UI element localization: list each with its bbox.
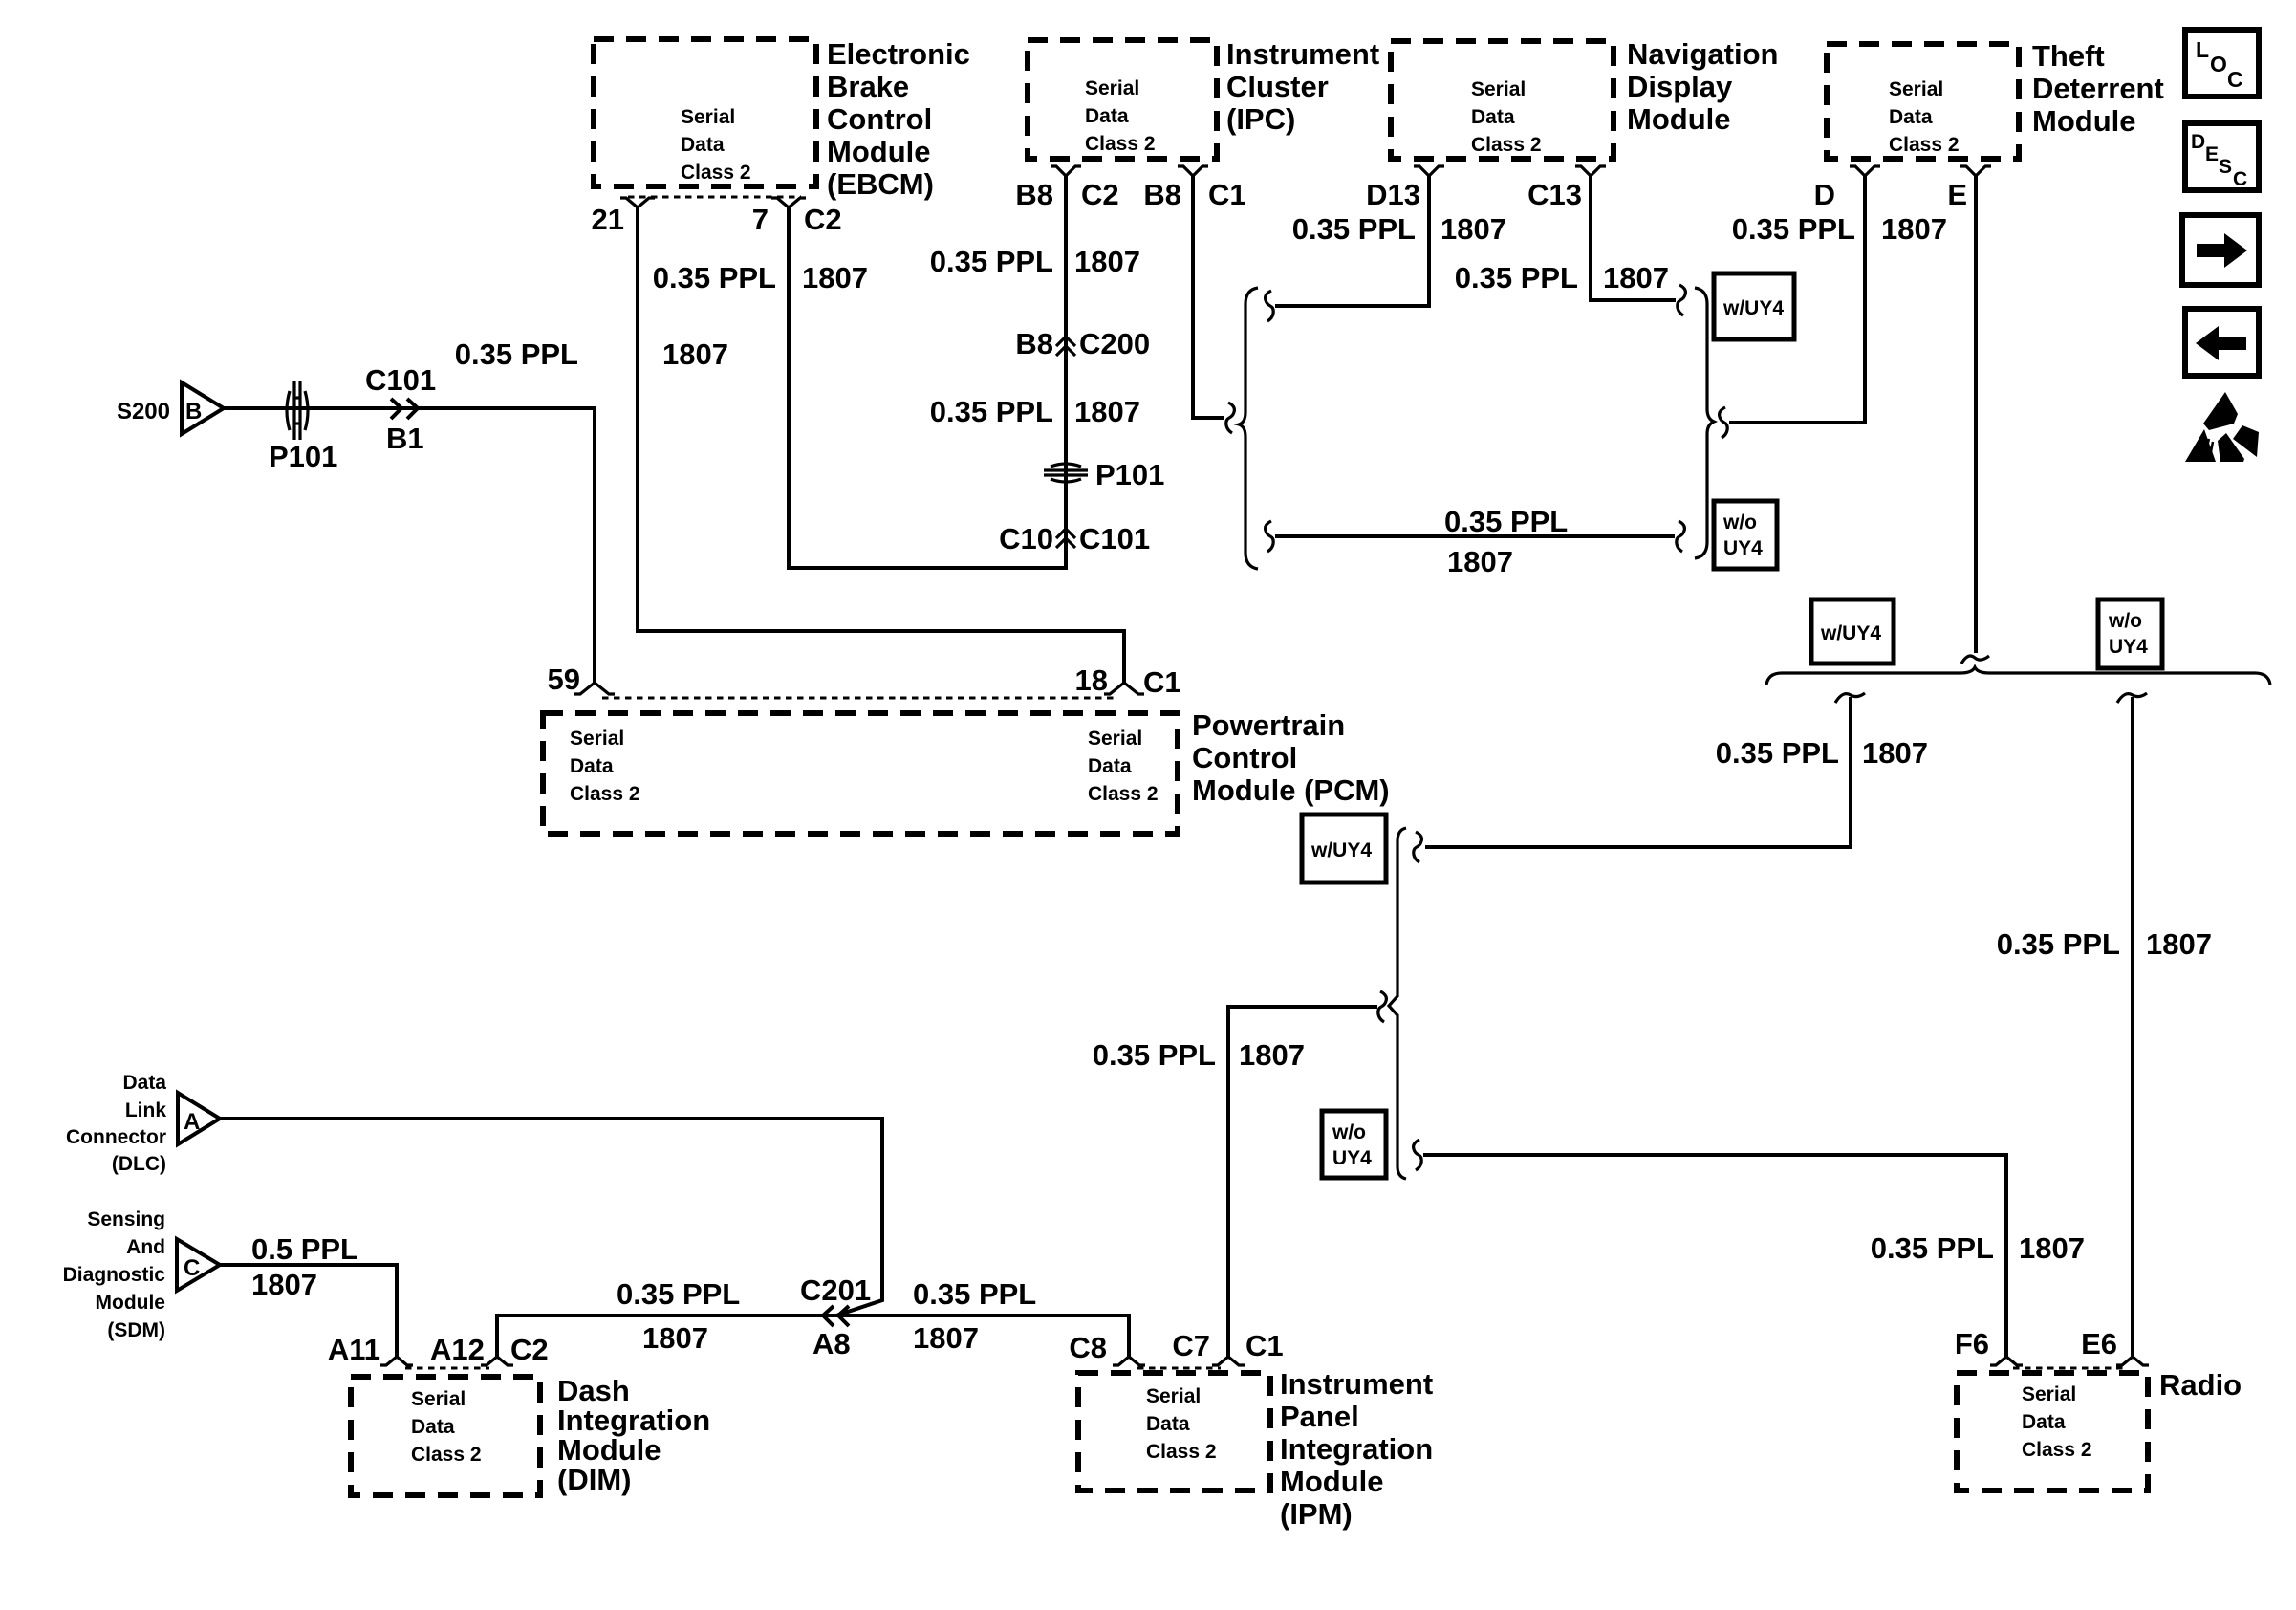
module box Theft Deterrent dashed — [1827, 44, 2019, 159]
svg-text:Data: Data — [122, 1072, 166, 1094]
svg-text:L: L — [2196, 37, 2209, 62]
wire Theft Deterrent pin E down to big brace — [1974, 176, 1978, 653]
icon box arrow right — [2182, 215, 2259, 285]
svg-text:Serial: Serial — [411, 1388, 466, 1410]
svg-text:0.35 PPL: 0.35 PPL — [455, 337, 578, 371]
title Powertrain Control Module PCM — [1192, 708, 1390, 807]
svg-text:C10: C10 — [999, 522, 1053, 555]
svg-text:Data: Data — [570, 755, 614, 777]
svg-text:(DIM): (DIM) — [557, 1463, 631, 1496]
svg-text:C8: C8 — [1069, 1331, 1107, 1364]
wire junction to Navigation pin D13 — [1275, 176, 1429, 306]
connector face dashed line PCM — [602, 697, 1116, 700]
option box w/UY4 at PCM junction — [1302, 815, 1386, 882]
svg-text:C: C — [2233, 168, 2247, 190]
svg-text:C101: C101 — [365, 363, 436, 397]
text w/o UY4 above big brace — [2108, 610, 2148, 658]
svg-text:Instrument: Instrument — [1226, 37, 1379, 71]
brace big horizontal — [1766, 667, 2270, 685]
svg-text:1807: 1807 — [1862, 736, 1928, 770]
svg-text:E: E — [2205, 143, 2219, 165]
text w/o UY4 at navigation junction — [1722, 511, 1763, 559]
svg-text:Serial: Serial — [2022, 1383, 2076, 1405]
svg-text:B8: B8 — [1015, 327, 1053, 360]
svg-text:A12: A12 — [430, 1333, 485, 1366]
svg-text:D13: D13 — [1366, 178, 1420, 211]
svg-text:B8: B8 — [1015, 178, 1053, 211]
svg-text:0.35 PPL: 0.35 PPL — [617, 1277, 740, 1311]
svg-text:Class 2: Class 2 — [1471, 134, 1542, 156]
svg-text:w/UY4: w/UY4 — [1310, 839, 1372, 861]
text data link connector DLC — [66, 1072, 166, 1175]
svg-text:Brake: Brake — [827, 70, 909, 103]
svg-text:Data: Data — [1471, 106, 1515, 128]
wire SDM C to DIM pin A11 — [220, 1265, 397, 1357]
svg-text:1807: 1807 — [1074, 395, 1140, 428]
svg-text:1807: 1807 — [1881, 212, 1947, 246]
wire big brace down to PCM w/UY4 junction — [1425, 697, 1851, 847]
Y connector pin E6 (Radio) — [2116, 1357, 2149, 1365]
Y connector pin D13 (Navigation) — [1414, 166, 1444, 176]
svg-text:w/o: w/o — [1332, 1121, 1366, 1143]
hook drop right under big brace — [2117, 693, 2147, 703]
svg-text:0.35 PPL: 0.35 PPL — [653, 261, 776, 294]
svg-text:0.35 PPL: 0.35 PPL — [1997, 927, 2120, 961]
svg-text:C: C — [2227, 67, 2243, 92]
title Dash Integration Module DIM — [557, 1374, 710, 1496]
text serial data class 2 Theft — [1889, 78, 1960, 156]
Y connector pin F6 (Radio) — [1990, 1357, 2023, 1365]
Y connector pin 7 (EBCM) — [771, 198, 806, 207]
connector face dashed line DIM — [405, 1367, 489, 1370]
svg-text:C201: C201 — [800, 1273, 871, 1307]
svg-text:A11: A11 — [328, 1333, 380, 1366]
svg-text:Link: Link — [125, 1099, 166, 1121]
title Theft Deterrent Module — [2032, 39, 2164, 138]
wire big brace down to Radio pin E6 — [2131, 697, 2134, 1357]
svg-text:Module: Module — [1280, 1465, 1384, 1498]
svg-text:Class 2: Class 2 — [411, 1444, 482, 1466]
Y connector pin C13 (Navigation) — [1575, 166, 1606, 176]
svg-text:Module: Module — [557, 1433, 661, 1467]
svg-text:UY4: UY4 — [2109, 636, 2148, 658]
svg-text:0.35 PPL: 0.35 PPL — [1444, 505, 1568, 538]
connector face dashed line IPM — [1137, 1367, 1221, 1370]
svg-text:E6: E6 — [2081, 1327, 2117, 1360]
Y connector pin C8 (IPM) — [1113, 1357, 1145, 1365]
Y connector pin A12 C2 (DIM) — [481, 1357, 513, 1365]
Y connector pin B8 C1 (IPC) — [1178, 166, 1208, 176]
svg-text:Integration: Integration — [1280, 1432, 1433, 1466]
svg-text:18: 18 — [1075, 664, 1108, 697]
icon box arrow left — [2185, 309, 2259, 376]
text serial data class 2 IPM — [1146, 1385, 1217, 1463]
svg-text:B8: B8 — [1143, 178, 1181, 211]
title Instrument Cluster IPC — [1226, 37, 1379, 136]
wire EBCM pin 21 to PCM pin 18 — [638, 207, 1124, 683]
svg-text:F6: F6 — [1955, 1327, 1989, 1360]
svg-text:Panel: Panel — [1280, 1400, 1359, 1433]
svg-text:Cluster: Cluster — [1226, 70, 1329, 103]
svg-text:Data: Data — [1146, 1413, 1190, 1435]
svg-text:C7: C7 — [1172, 1329, 1210, 1362]
svg-text:1807: 1807 — [2146, 927, 2212, 961]
svg-text:Serial: Serial — [1889, 78, 1943, 100]
svg-text:Serial: Serial — [1146, 1385, 1201, 1407]
module box PCM dashed — [543, 713, 1178, 834]
svg-text:C1: C1 — [1208, 178, 1246, 211]
svg-text:UY4: UY4 — [1723, 537, 1763, 559]
svg-text:Instrument: Instrument — [1280, 1367, 1433, 1401]
svg-text:Data: Data — [1085, 105, 1129, 127]
svg-text:1807: 1807 — [802, 261, 868, 294]
svg-text:0.35 PPL: 0.35 PPL — [1292, 212, 1416, 246]
svg-text:Data: Data — [2022, 1411, 2066, 1433]
brace wire end w/o UY4 branch right — [1677, 521, 1685, 552]
svg-text:0.35 PPL: 0.35 PPL — [1093, 1038, 1216, 1072]
text serial data class 2 EBCM — [681, 106, 751, 184]
brace trunk giant with middle point — [1389, 828, 1406, 1179]
svg-text:Serial: Serial — [1471, 78, 1526, 100]
connector P101 inline symbol vertical — [287, 381, 308, 440]
svg-text:(EBCM): (EBCM) — [827, 167, 934, 201]
svg-text:Serial: Serial — [570, 728, 624, 750]
wire Navigation pin C13 to junction — [1591, 176, 1676, 300]
brace attach D13 branch — [1266, 291, 1274, 321]
svg-text:1807: 1807 — [2019, 1231, 2085, 1265]
brace big left junction — [1239, 288, 1258, 569]
svg-text:0.35 PPL: 0.35 PPL — [1716, 736, 1839, 770]
svg-text:1807: 1807 — [1447, 545, 1513, 578]
svg-text:C13: C13 — [1527, 178, 1582, 211]
svg-text:Module: Module — [1627, 102, 1731, 136]
brace attach w/o UY4 lower branch — [1414, 1140, 1422, 1170]
icon box LOC — [2185, 30, 2259, 97]
module box DIM dashed — [351, 1377, 540, 1495]
connector P101 inline symbol horizontal — [1044, 464, 1088, 482]
text serial data class 2 IPC — [1085, 77, 1156, 155]
svg-text:Serial: Serial — [1085, 77, 1139, 99]
svg-text:Radio: Radio — [2159, 1368, 2242, 1402]
svg-text:Class 2: Class 2 — [681, 162, 751, 184]
wire EBCM pin 7 C2 to IPC pin B8 C2 — [789, 176, 1066, 568]
svg-text:w/UY4: w/UY4 — [1722, 297, 1784, 319]
svg-text:Data: Data — [1088, 755, 1132, 777]
brace wire end at C13 junction — [1678, 285, 1686, 315]
svg-text:Serial: Serial — [681, 106, 735, 128]
svg-text:0.35 PPL: 0.35 PPL — [1455, 261, 1578, 294]
svg-text:1807: 1807 — [662, 337, 728, 371]
svg-text:P101: P101 — [269, 440, 337, 473]
svg-text:Powertrain: Powertrain — [1192, 708, 1345, 742]
svg-text:D: D — [2191, 131, 2205, 153]
svg-text:1807: 1807 — [1603, 261, 1669, 294]
text serial data class 2 Radio — [2022, 1383, 2092, 1461]
svg-text:0.5 PPL: 0.5 PPL — [251, 1232, 358, 1266]
squiggle at E wire bottom — [1961, 656, 1989, 664]
brace attach w/o UY4 branch left — [1266, 521, 1274, 552]
svg-text:B: B — [185, 399, 202, 424]
connector face dashed line EBCM — [628, 196, 801, 199]
svg-text:(IPC): (IPC) — [1226, 102, 1295, 136]
svg-text:Data: Data — [411, 1416, 455, 1438]
svg-text:Theft: Theft — [2032, 39, 2105, 73]
option box w/o UY4 at navigation junction — [1714, 501, 1777, 569]
option box w/o UY4 above big brace — [2098, 599, 2162, 668]
brace wire end at trunk middle — [1378, 991, 1387, 1022]
svg-text:Display: Display — [1627, 70, 1733, 103]
svg-text:w/UY4: w/UY4 — [1820, 622, 1881, 644]
svg-text:S200: S200 — [117, 399, 170, 424]
svg-text:1807: 1807 — [1440, 212, 1506, 246]
svg-text:P101: P101 — [1095, 458, 1164, 491]
module box Navigation dashed — [1391, 41, 1614, 159]
svg-text:0.35 PPL: 0.35 PPL — [930, 395, 1053, 428]
brace wire end at IPC C1 junction — [1226, 402, 1235, 433]
connector face dashed line Radio — [2013, 1367, 2124, 1370]
Y connector pin D (Theft Deterrent) — [1850, 166, 1880, 176]
svg-text:A: A — [184, 1109, 200, 1135]
svg-text:S: S — [2219, 156, 2232, 178]
svg-text:(IPM): (IPM) — [1280, 1497, 1353, 1531]
svg-text:0.35 PPL: 0.35 PPL — [1732, 212, 1855, 246]
title Navigation Display Module — [1627, 37, 1778, 136]
svg-text:C101: C101 — [1079, 522, 1150, 555]
icon box DESC — [2185, 123, 2259, 190]
svg-text:(DLC): (DLC) — [112, 1153, 166, 1175]
connector C200 pass-through chevrons pin B8 — [1056, 337, 1075, 356]
svg-text:C2: C2 — [510, 1333, 549, 1366]
svg-text:UY4: UY4 — [1332, 1147, 1372, 1169]
wire junction to w/o UY4 branch (upper) — [1275, 534, 1675, 538]
wire IPM pin C7 up to trunk middle point — [1228, 1007, 1377, 1357]
svg-text:Module (PCM): Module (PCM) — [1192, 773, 1390, 807]
svg-text:E: E — [1947, 178, 1967, 211]
brace attach theft D branch — [1720, 407, 1728, 438]
svg-text:Class 2: Class 2 — [1085, 133, 1156, 155]
svg-text:Sensing: Sensing — [87, 1208, 165, 1230]
svg-text:0.35 PPL: 0.35 PPL — [913, 1277, 1036, 1311]
svg-text:1807: 1807 — [1239, 1038, 1305, 1072]
svg-text:Module: Module — [2032, 104, 2136, 138]
Y connector pin A11 (DIM) — [380, 1357, 413, 1365]
brace wire end at PCM w/UY4 junction — [1414, 832, 1422, 862]
svg-text:B1: B1 — [386, 422, 424, 455]
text serial data class 2 DIM — [411, 1388, 482, 1466]
svg-text:Control: Control — [827, 102, 932, 136]
svg-text:7: 7 — [752, 203, 769, 236]
Y connector pin 59 (PCM) — [574, 683, 615, 694]
svg-text:C2: C2 — [804, 203, 842, 236]
svg-text:Diagnostic: Diagnostic — [63, 1264, 166, 1286]
module box IPM dashed — [1078, 1373, 1270, 1490]
svg-text:Navigation: Navigation — [1627, 37, 1778, 71]
svg-text:O: O — [2210, 52, 2227, 76]
svg-text:Data: Data — [681, 134, 725, 156]
svg-text:A8: A8 — [812, 1327, 851, 1360]
svg-text:D: D — [1814, 178, 1835, 211]
wire junction to Theft Deterrent pin D — [1729, 176, 1865, 423]
svg-text:Data: Data — [1889, 106, 1933, 128]
svg-text:Electronic: Electronic — [827, 37, 970, 71]
svg-text:C1: C1 — [1143, 665, 1181, 699]
text serial data class 2 PCM right — [1088, 728, 1159, 805]
svg-text:Integration: Integration — [557, 1403, 710, 1437]
Y connector pin 18 (PCM) — [1104, 683, 1144, 694]
wire IPC pin B8 C1 to junction brace — [1193, 176, 1224, 418]
wire trunk lower branch to Radio pin F6 — [1423, 1155, 2006, 1357]
module box Radio dashed — [1957, 1373, 2148, 1490]
svg-text:Serial: Serial — [1088, 728, 1142, 750]
svg-text:C: C — [184, 1255, 200, 1281]
svg-text:Class 2: Class 2 — [570, 783, 640, 805]
svg-text:Class 2: Class 2 — [1889, 134, 1960, 156]
svg-text:Class 2: Class 2 — [1146, 1441, 1217, 1463]
svg-text:1807: 1807 — [913, 1321, 979, 1355]
option box w/UY4 at navigation junction — [1714, 273, 1794, 339]
svg-text:1807: 1807 — [1074, 245, 1140, 278]
wire DIM pin C2 to IPM pin C8 through C201 — [497, 1316, 1129, 1357]
svg-text:0.35 PPL: 0.35 PPL — [1871, 1231, 1994, 1265]
svg-text:(SDM): (SDM) — [107, 1319, 165, 1341]
wire DLC A to C201 splice — [220, 1119, 882, 1316]
Y connector pin C7 C1 (IPM) — [1212, 1357, 1245, 1365]
svg-text:21: 21 — [592, 203, 624, 236]
connector C101 pass-through chevrons on S200 wire — [391, 399, 418, 419]
Y connector pin 21 (EBCM) — [620, 198, 655, 207]
svg-text:Class 2: Class 2 — [1088, 783, 1159, 805]
title Electronic Brake Control Module EBCM — [827, 37, 970, 201]
brace tall right junction — [1695, 288, 1714, 558]
svg-text:And: And — [126, 1236, 165, 1258]
svg-text:0.35 PPL: 0.35 PPL — [930, 245, 1053, 278]
icon ESD warning symbol — [2185, 392, 2259, 462]
splice triangle DLC pin A — [178, 1093, 220, 1144]
module box EBCM dashed — [594, 39, 816, 186]
text serial data class 2 Navigation — [1471, 78, 1542, 156]
svg-text:Control: Control — [1192, 741, 1297, 774]
connector C201 pass-through chevrons pin A8 — [823, 1306, 849, 1326]
svg-text:Connector: Connector — [66, 1126, 166, 1148]
option box w/o UY4 at trunk lower junction — [1322, 1111, 1386, 1178]
option box w/UY4 above big brace — [1811, 599, 1894, 664]
module box IPC dashed — [1028, 40, 1217, 159]
wire S200 splice to C101 to PCM pin 59 — [224, 408, 595, 683]
splice triangle SDM pin C — [177, 1239, 220, 1291]
text sensing and diagnostic module SDM — [63, 1208, 166, 1341]
svg-text:59: 59 — [548, 663, 580, 696]
text w/o UY4 at trunk lower junction — [1332, 1121, 1372, 1169]
Y connector pin B8 C2 (IPC) — [1051, 166, 1081, 176]
connector C101 pass-through chevrons pin C10 — [1056, 529, 1075, 548]
svg-text:Module: Module — [827, 135, 931, 168]
svg-text:C1: C1 — [1245, 1329, 1284, 1362]
text serial data class 2 PCM left — [570, 728, 640, 805]
svg-text:1807: 1807 — [642, 1321, 708, 1355]
splice triangle S200 pin B — [182, 382, 224, 434]
svg-text:w/o: w/o — [1722, 511, 1757, 533]
svg-text:w/o: w/o — [2108, 610, 2142, 632]
svg-text:Dash: Dash — [557, 1374, 630, 1407]
svg-text:Module: Module — [96, 1292, 166, 1314]
svg-text:Class 2: Class 2 — [2022, 1439, 2092, 1461]
hook drop left under big brace — [1835, 693, 1865, 703]
svg-text:Deterrent: Deterrent — [2032, 72, 2164, 105]
svg-text:C200: C200 — [1079, 327, 1150, 360]
title Instrument Panel Integration Module IPM — [1280, 1367, 1433, 1531]
svg-text:1807: 1807 — [251, 1268, 317, 1301]
svg-text:C2: C2 — [1081, 178, 1119, 211]
Y connector pin E (Theft Deterrent) — [1960, 166, 1991, 176]
